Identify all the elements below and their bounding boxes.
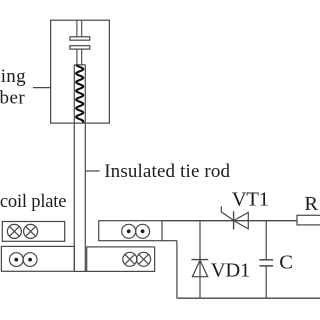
svg-text:ber: ber [0, 87, 25, 108]
svg-text:C: C [279, 252, 293, 274]
svg-text:VT1: VT1 [232, 188, 269, 210]
svg-text:Insulated tie rod: Insulated tie rod [104, 161, 230, 182]
svg-text:R: R [304, 193, 318, 215]
svg-text:coil plate: coil plate [0, 192, 66, 212]
svg-text:VD1: VD1 [211, 260, 250, 282]
svg-text:ing: ing [1, 66, 26, 87]
